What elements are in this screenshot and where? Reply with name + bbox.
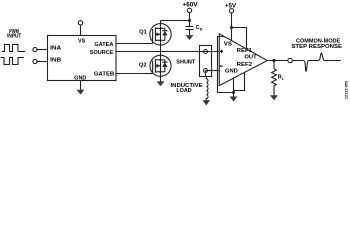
wire GND pin drop (233, 78, 235, 93)
svg-text:OUT: OUT (244, 55, 257, 61)
terminal shunt sense low (204, 69, 208, 73)
ground at amp (230, 93, 238, 102)
ground at RL (270, 95, 278, 100)
wire GATEB (116, 73, 153, 75)
gate driver U1 box (48, 36, 117, 81)
node +5V junction (230, 26, 233, 29)
svg-text:GATEA: GATEA (94, 42, 113, 48)
wire INB (37, 61, 47, 63)
wire +5V to VS pin (231, 13, 233, 41)
ground at driver GND (77, 81, 85, 95)
svg-text:GND: GND (225, 69, 238, 75)
wire Q2 source stub (160, 72, 162, 82)
terminal shunt sense high (204, 50, 208, 54)
wire Q1 drain (160, 21, 162, 29)
wire shunt low to box bottom (205, 71, 207, 77)
svg-text:SOURCE: SOURCE (90, 50, 114, 56)
resistor RL (272, 61, 277, 96)
svg-text:Q1: Q1 (139, 30, 147, 36)
node ground junction (232, 91, 235, 94)
wire VS terminal to box (80, 25, 82, 36)
waveform step response (292, 53, 341, 71)
terminal OUT (288, 58, 292, 62)
wire INA (37, 49, 47, 51)
svg-text:GATEB: GATEB (94, 72, 114, 78)
terminal VS supply (78, 21, 82, 25)
op-amp difference amplifier (219, 34, 267, 86)
svg-text:D: D (200, 27, 203, 32)
svg-text:INA: INA (50, 46, 61, 52)
inductor load coil (206, 77, 208, 101)
svg-text:INB: INB (50, 58, 61, 64)
waveform PWM A (2, 45, 25, 52)
svg-text:VS: VS (78, 39, 86, 45)
terminal +60V (187, 8, 191, 12)
shunt resistor box (200, 46, 212, 77)
capacitor CD (186, 27, 194, 30)
waveform PWM B (1, 58, 24, 65)
ground at Q2 source (157, 81, 165, 86)
label minus input (220, 65, 223, 67)
svg-text:12172-053: 12172-053 (345, 81, 349, 99)
wire Q1 source to Q2 drain (160, 40, 162, 55)
transistor Q2 (146, 55, 171, 76)
wire REF2 to ground (234, 72, 245, 90)
wire SOURCE node (116, 51, 219, 53)
svg-text:SHUNT: SHUNT (176, 59, 196, 65)
label COMMON-MODE STEP RESPONSE (291, 39, 342, 50)
label PWM INPUT (7, 29, 22, 40)
wire negative supply to ground (218, 37, 234, 93)
svg-text:REF2: REF2 (237, 62, 252, 68)
svg-text:LOAD: LOAD (176, 88, 191, 94)
label INDUCTIVE LOAD (171, 83, 204, 94)
ground at CD (186, 30, 194, 41)
transistor Q1 (146, 24, 171, 45)
svg-text:INPUT: INPUT (7, 34, 22, 40)
terminal +5V (229, 9, 233, 13)
node +60V junction (188, 19, 191, 22)
wire Q2 drain stub (160, 55, 162, 60)
ground at inductor (202, 100, 210, 105)
wire GATEA (116, 43, 153, 45)
wire REF1 to +5V (232, 28, 247, 50)
wire shunt sense low (206, 70, 220, 72)
svg-text:REF1: REF1 (237, 48, 252, 54)
svg-text:Q2: Q2 (139, 63, 147, 69)
wire +60V rail (189, 13, 191, 27)
terminal INB (33, 59, 37, 63)
label plus input (220, 50, 223, 53)
terminal INA (33, 47, 37, 51)
svg-text:VS: VS (224, 42, 233, 48)
wire OUT (267, 60, 288, 62)
wire rail to Q1 drain (161, 20, 190, 22)
svg-text:+60V: +60V (182, 2, 198, 9)
wire SOURCE through shunt (200, 51, 220, 53)
node OUT junction (272, 59, 275, 62)
svg-text:STEP RESPONSE: STEP RESPONSE (291, 44, 342, 50)
